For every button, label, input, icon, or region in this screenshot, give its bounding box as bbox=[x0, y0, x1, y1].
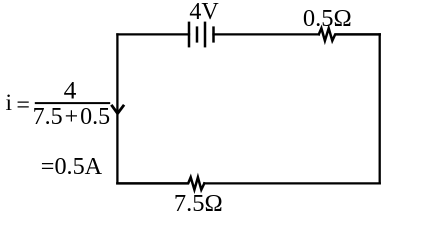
svg-text:i: i bbox=[6, 90, 13, 116]
svg-text:=0.5A: =0.5A bbox=[41, 153, 103, 180]
svg-text:=: = bbox=[16, 93, 30, 119]
svg-text:4V: 4V bbox=[189, 0, 219, 25]
svg-text:7.5 + 0.5: 7.5 + 0.5 bbox=[33, 104, 111, 130]
svg-text:4: 4 bbox=[64, 76, 77, 105]
svg-text:0.5Ω: 0.5Ω bbox=[303, 5, 352, 32]
svg-text:7.5Ω: 7.5Ω bbox=[174, 190, 223, 217]
